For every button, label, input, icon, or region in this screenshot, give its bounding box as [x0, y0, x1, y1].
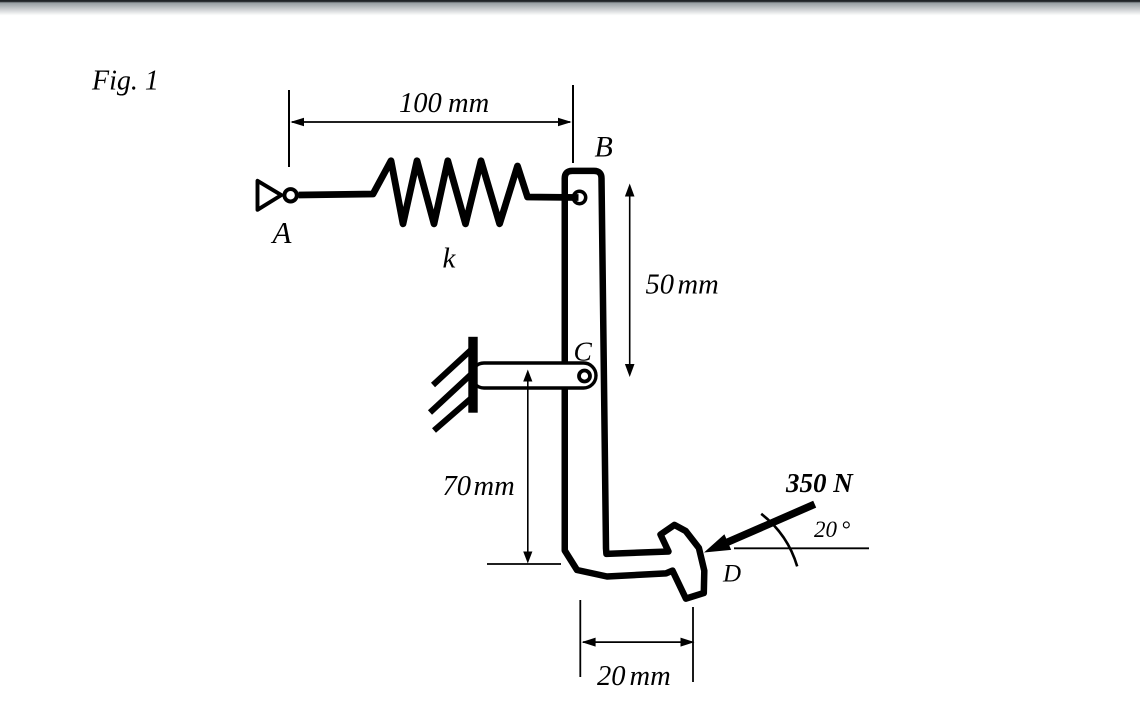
svg-text:mm: mm [630, 661, 671, 692]
svg-text:20: 20 [597, 661, 626, 692]
svg-text:k: k [443, 243, 457, 275]
svg-text:20: 20 [814, 517, 838, 542]
svg-text:A: A [271, 215, 293, 250]
svg-text:mm: mm [474, 471, 515, 502]
svg-text:50: 50 [646, 270, 675, 301]
svg-text:°: ° [841, 517, 850, 542]
svg-text:mm: mm [678, 270, 719, 301]
svg-text:mm: mm [448, 88, 489, 119]
svg-text:100: 100 [399, 88, 442, 119]
svg-text:D: D [722, 560, 741, 587]
svg-text:70: 70 [443, 471, 472, 502]
svg-text:350 N: 350 N [785, 468, 854, 498]
svg-text:C: C [574, 335, 593, 366]
svg-text:Fig. 1: Fig. 1 [91, 66, 159, 97]
svg-text:B: B [595, 131, 613, 164]
